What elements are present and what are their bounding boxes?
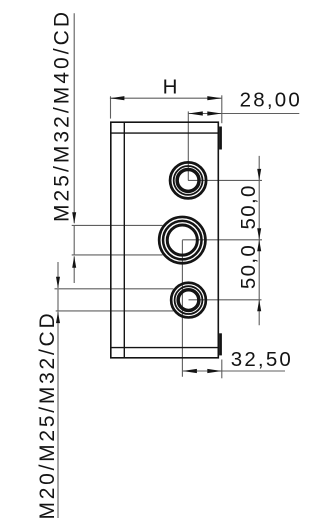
svg-text:M20/M25/M32/CD: M20/M25/M32/CD: [36, 311, 59, 518]
svg-text:H: H: [163, 76, 178, 99]
svg-text:32,50: 32,50: [231, 348, 293, 371]
svg-text:50,0: 50,0: [237, 244, 260, 289]
svg-text:50,0: 50,0: [237, 184, 260, 229]
svg-text:M25/M32/M40/CD: M25/M32/M40/CD: [50, 9, 73, 222]
svg-text:28,00: 28,00: [240, 89, 302, 112]
